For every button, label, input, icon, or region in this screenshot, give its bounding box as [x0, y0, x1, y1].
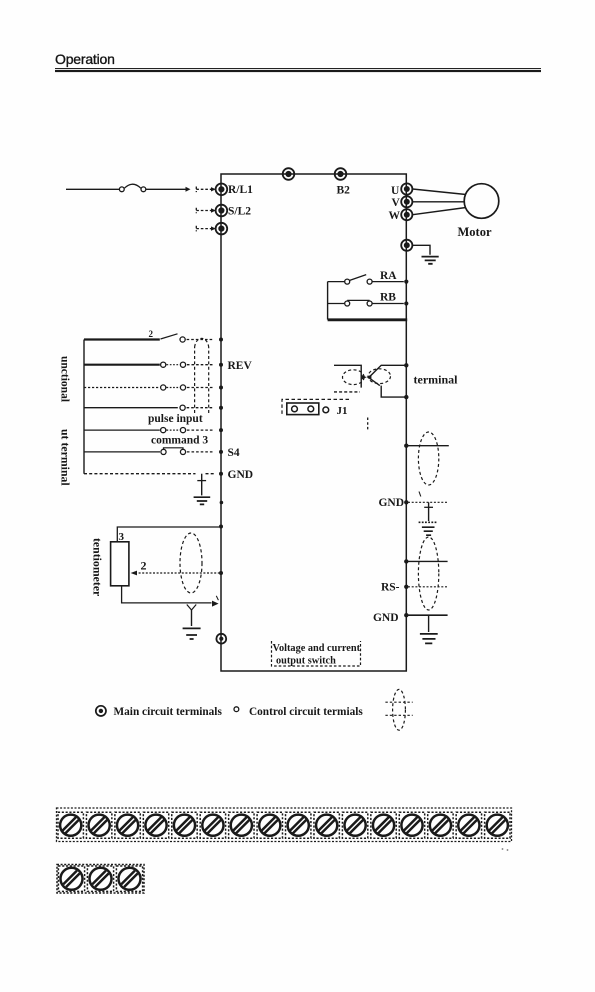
svg-text:REV: REV [228, 360, 253, 372]
svg-text:S/L2: S/L2 [228, 205, 251, 217]
svg-text:Operation: Operation [55, 51, 115, 67]
svg-text:W: W [389, 210, 401, 222]
svg-text:S4: S4 [228, 447, 240, 459]
svg-text:2: 2 [141, 559, 147, 573]
svg-text:output switch: output switch [276, 655, 336, 666]
svg-text:RS-: RS- [381, 582, 400, 594]
svg-text:terminal: terminal [414, 373, 459, 387]
svg-text:Motor: Motor [458, 225, 492, 239]
svg-text:Voltage and current: Voltage and current [273, 643, 361, 654]
svg-text:R/L1: R/L1 [228, 184, 253, 196]
svg-text:2: 2 [149, 329, 154, 339]
svg-text:GND: GND [378, 497, 404, 509]
svg-text:V: V [392, 197, 401, 209]
svg-text:U: U [391, 185, 400, 197]
svg-text:ut terminal: ut terminal [59, 429, 73, 486]
svg-text:Control circuit termials: Control circuit termials [249, 706, 363, 718]
svg-text:Main circuit terminals: Main circuit terminals [114, 706, 223, 718]
svg-text:GND: GND [373, 612, 399, 624]
svg-text:B2: B2 [337, 185, 351, 197]
svg-text:RA: RA [380, 270, 397, 282]
svg-text:unctional: unctional [59, 356, 71, 402]
svg-text:J1: J1 [337, 405, 348, 417]
svg-text:tentiometer: tentiometer [91, 538, 105, 596]
svg-text:GND: GND [228, 469, 254, 481]
svg-text:RB: RB [380, 292, 396, 304]
svg-text:pulse input: pulse input [148, 413, 203, 425]
svg-text:command 3: command 3 [151, 434, 208, 446]
